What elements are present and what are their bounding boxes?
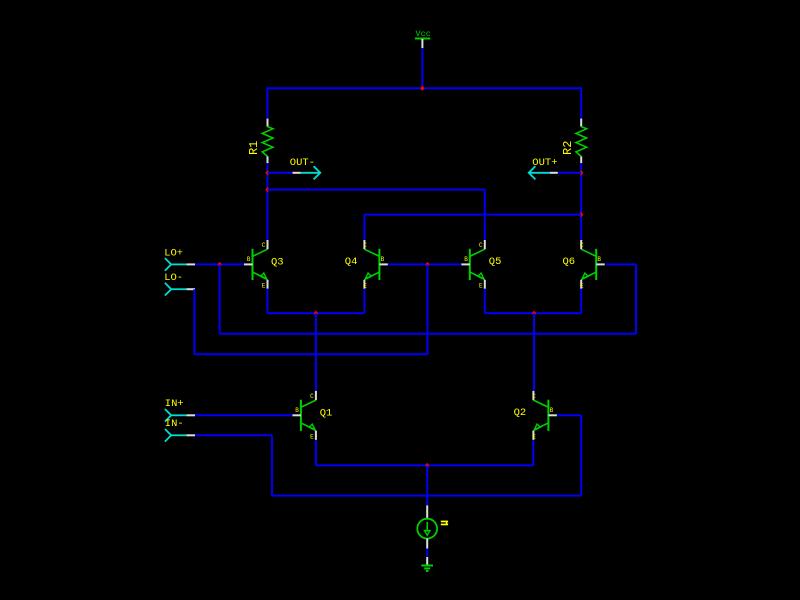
svg-text:C: C (479, 242, 483, 249)
node cross-couple left junction (265, 187, 269, 192)
svg-text:R2: R2 (561, 141, 575, 155)
wire Vcc to top bus (421, 48, 423, 88)
svg-text:E: E (580, 283, 584, 290)
wire top supply bus (268, 87, 582, 89)
wire LO+ drop (219, 264, 221, 333)
svg-text:LO-: LO- (164, 272, 183, 284)
wire IN- horizontal (195, 434, 272, 436)
port OUT+ (529, 157, 582, 179)
wire left emitter bus (268, 312, 365, 314)
svg-text:B: B (295, 407, 299, 414)
transistor Q2 (514, 391, 557, 441)
wire IN- bottom bus to Q2 base (272, 495, 581, 497)
svg-text:C: C (262, 242, 266, 249)
wire Q3 emitter drop (267, 289, 269, 314)
wire LO+ to Q3 base (195, 263, 244, 265)
wire Q4 collector riser (363, 215, 365, 241)
transistor Q4 (345, 240, 388, 290)
transistor Q6 (563, 240, 605, 290)
wire tail emitter bus (316, 464, 534, 466)
wire Q1 emitter drop (315, 440, 317, 466)
node OUT- junction (265, 170, 269, 175)
wire left pair to Q1 collector (315, 313, 317, 391)
svg-text:IN+: IN+ (165, 398, 184, 410)
node LO- junction (425, 262, 429, 267)
svg-text:C: C (580, 242, 584, 249)
svg-text:B: B (381, 256, 385, 263)
node LO+ junction (217, 262, 221, 267)
wire LO- drop (193, 289, 195, 354)
port IN+ (165, 398, 195, 422)
wire IN- drop (271, 435, 273, 495)
wire LO- riser to Q4/Q5 bases (427, 264, 429, 354)
power symbol Vcc (415, 29, 431, 48)
svg-text:B: B (464, 256, 468, 263)
svg-text:E: E (532, 434, 536, 441)
svg-text:B: B (597, 256, 601, 263)
wire right pair to Q2 collector (533, 313, 535, 391)
node Vcc bus junction (420, 86, 424, 91)
port LO- (164, 272, 195, 296)
svg-text:Q6: Q6 (563, 256, 576, 268)
wire Q4 base to Q5 base (388, 263, 461, 265)
svg-text:R1: R1 (247, 141, 261, 155)
svg-text:Q4: Q4 (345, 256, 358, 268)
svg-text:LO+: LO+ (164, 247, 183, 259)
transistor Q3 (244, 240, 284, 290)
svg-text:Q3: Q3 (271, 256, 284, 268)
transistor Q1 (292, 391, 332, 441)
svg-text:OUT-: OUT- (290, 157, 315, 169)
svg-text:E: E (262, 283, 266, 290)
svg-text:Q5: Q5 (489, 256, 502, 268)
node tail junction (425, 463, 429, 468)
wire Q2 emitter drop (532, 440, 534, 466)
wire cross-couple right horizontal (364, 214, 581, 216)
wire Q6 base riser (635, 264, 637, 333)
svg-text:B: B (247, 256, 251, 263)
wire Q4 emitter drop (363, 289, 365, 314)
port LO+ (164, 247, 195, 270)
port OUT- (268, 157, 321, 179)
wire Q2 base to riser (557, 414, 581, 416)
svg-text:B: B (550, 407, 554, 414)
wire cross-couple left horizontal (268, 189, 485, 191)
wire IN+ to Q1 base (195, 414, 292, 416)
svg-text:Q2: Q2 (514, 407, 527, 419)
transistor Q5 (461, 240, 501, 290)
wire tail drop to current source (426, 465, 428, 505)
node left emitter junction (314, 311, 318, 316)
node cross-couple right junction (579, 212, 583, 217)
node OUT+ junction (579, 170, 583, 175)
wire Q6 emitter drop (580, 289, 582, 314)
svg-text:E: E (479, 283, 483, 290)
svg-text:IN-: IN- (165, 418, 184, 430)
svg-text:OUT+: OUT+ (532, 157, 557, 169)
svg-text:C: C (310, 393, 314, 400)
ground (421, 557, 433, 571)
wire LO- bus (194, 353, 427, 355)
wire bus to R1 (267, 87, 269, 119)
svg-text:Q1: Q1 (320, 408, 333, 420)
wire R1 to Q3 collector (267, 163, 269, 240)
wire Q2 base drop (580, 415, 582, 495)
wire riser to Q6 base (606, 263, 636, 265)
resistor R1 (247, 119, 273, 164)
wire right emitter bus (485, 312, 581, 314)
wire bus to R2 (580, 87, 582, 119)
wire current source to ground (426, 549, 428, 558)
wire cross-couple left to Q5 collector (484, 190, 486, 241)
port IN- (165, 418, 195, 441)
current source I1 (417, 505, 448, 548)
svg-text:C: C (532, 393, 536, 400)
wire R2 to Q6 collector (580, 163, 582, 240)
resistor R2 (561, 119, 587, 164)
svg-text:C: C (363, 242, 367, 249)
wire Q5 emitter drop (484, 289, 486, 314)
svg-text:E: E (310, 434, 314, 441)
wire LO+ bus to Q6 (220, 333, 636, 335)
node right emitter junction (532, 311, 536, 316)
svg-text:E: E (363, 283, 367, 290)
